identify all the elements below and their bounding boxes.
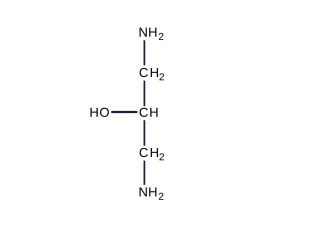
bond C3-N2 (vertical) [143,161,146,185]
methylene group C1 label "CH2" [140,68,164,80]
bond C2-C3 (vertical) [143,120,146,146]
bond N1-C1 (vertical) [143,40,146,65]
bond O-C2 (horizontal) [111,110,137,113]
hydroxyl group label "HO" [90,108,108,117]
amine group N2 label "NH2" (bottom) [140,187,164,199]
amine group N1 label "NH2" (top) [140,28,164,40]
bond C1-C2 (vertical) [143,81,146,107]
methylene group C3 label "CH2" [140,148,164,160]
methine group C2 label "CH" [140,108,158,117]
